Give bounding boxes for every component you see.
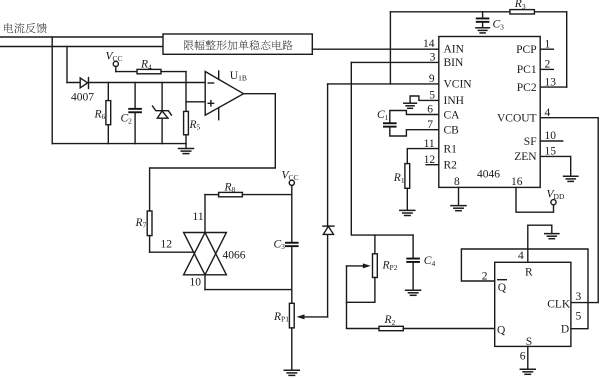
ground pin8 bbox=[451, 206, 466, 211]
svg-text:R3: R3 bbox=[514, 0, 526, 11]
wire pin10 SF stub bbox=[540, 140, 563, 142]
svg-text:Q: Q bbox=[497, 324, 506, 336]
wire VCIN horizontal bbox=[328, 83, 439, 85]
label 电流反馈 (current feedback) bbox=[4, 23, 47, 33]
wire zener top bbox=[161, 83, 163, 111]
capacitor C2 bbox=[128, 108, 142, 113]
svg-text:S: S bbox=[526, 336, 532, 348]
svg-text:3: 3 bbox=[576, 291, 582, 303]
capacitor C7 bbox=[285, 242, 299, 247]
svg-text:R1: R1 bbox=[444, 143, 458, 155]
wire C3 to ground bbox=[482, 23, 484, 27]
wire pin2 stub bbox=[540, 68, 553, 70]
svg-text:4046: 4046 bbox=[477, 169, 500, 181]
op-amp U1B bbox=[205, 71, 243, 120]
wire C3 stem bbox=[482, 12, 484, 18]
wire 4066 pin10 to RP1 node bbox=[205, 275, 292, 290]
wire INH pin5 to ground bbox=[410, 96, 439, 103]
svg-text:10: 10 bbox=[190, 277, 202, 289]
wire pin1 stub bbox=[540, 48, 553, 50]
svg-text:12: 12 bbox=[161, 239, 173, 251]
ground ZEN bbox=[564, 176, 578, 181]
wire vertical from line2 bbox=[66, 47, 68, 83]
svg-text:AIN: AIN bbox=[444, 44, 465, 56]
wire VCO rail down to VCIN bbox=[389, 12, 391, 84]
svg-text:SF: SF bbox=[524, 136, 537, 148]
power Vcc (left) bbox=[106, 51, 123, 67]
wire R2 to Q bbox=[403, 328, 494, 330]
ground G1 bbox=[179, 149, 194, 154]
capacitor C4 bbox=[406, 258, 420, 263]
svg-text:6: 6 bbox=[520, 350, 526, 362]
resistor R8 bbox=[219, 192, 243, 196]
analog switch U3 4066 (two gates) bbox=[184, 233, 227, 275]
wire vertical from line1 bbox=[51, 37, 53, 144]
svg-text:ZEN: ZEN bbox=[514, 151, 537, 163]
wire R7 to 4066 pin12 bbox=[150, 236, 195, 253]
svg-text:11: 11 bbox=[193, 211, 204, 223]
wire C4 bottom bbox=[412, 263, 414, 289]
wire 4066 pin11 bbox=[204, 195, 206, 233]
wire R6 top bbox=[107, 83, 109, 101]
ground S pin bbox=[520, 369, 535, 374]
wiper arrow RP2 bbox=[347, 263, 371, 268]
svg-text:CLK: CLK bbox=[547, 298, 571, 310]
wire pin8 stem bbox=[458, 187, 460, 204]
wire pin16 to VDD bbox=[516, 187, 554, 212]
svg-text:3: 3 bbox=[430, 52, 436, 64]
resistor R4 bbox=[137, 69, 161, 73]
power VDD bbox=[547, 189, 565, 205]
svg-text:PC1: PC1 bbox=[517, 64, 537, 76]
resistor R5 bbox=[184, 111, 189, 134]
wire zener bottom bbox=[161, 118, 163, 143]
flip-flop U4 body bbox=[495, 262, 571, 346]
svg-text:4066: 4066 bbox=[223, 250, 246, 262]
wire S pin stem bbox=[527, 346, 529, 368]
wire R5 bottom bbox=[185, 135, 187, 144]
wire CB pin7 to C1 bbox=[390, 128, 439, 136]
svg-text:VCOUT: VCOUT bbox=[497, 113, 537, 125]
zener diode DZ bbox=[153, 106, 172, 118]
ground under C4 bbox=[406, 290, 421, 295]
svg-text:2: 2 bbox=[482, 270, 488, 282]
wire R8 right to Vcc rail bbox=[242, 194, 291, 196]
svg-text:8: 8 bbox=[454, 176, 460, 188]
svg-text:PCP: PCP bbox=[516, 44, 536, 56]
potentiometer RP2 body bbox=[373, 254, 378, 278]
svg-text:14: 14 bbox=[423, 38, 435, 50]
IC U2 4046 body bbox=[439, 37, 540, 188]
wire pin13 up to R3 bbox=[566, 12, 568, 87]
wire R1 to ground bbox=[406, 188, 408, 209]
wire diode input row bbox=[67, 82, 205, 84]
svg-text:BIN: BIN bbox=[444, 57, 465, 69]
wire RP1 bottom bbox=[291, 328, 293, 369]
svg-text:4: 4 bbox=[518, 250, 524, 262]
wire C2 top bbox=[134, 83, 136, 108]
resistor R6 bbox=[106, 101, 111, 125]
potentiometer RP1 body bbox=[289, 303, 294, 328]
diode D1 4007 bbox=[80, 78, 88, 89]
svg-text:9: 9 bbox=[429, 73, 435, 85]
wire feedback line 2 bbox=[0, 46, 163, 48]
svg-text:PC2: PC2 bbox=[517, 82, 537, 94]
wire R pin4 up bbox=[528, 225, 552, 262]
wire pin4 VCOUT to CLK bbox=[540, 118, 598, 303]
ground INH bbox=[404, 103, 417, 108]
label 限幅整形加单稳态电路 bbox=[184, 40, 293, 50]
wire R4 to plus node bbox=[161, 72, 186, 112]
wire plus input bbox=[186, 101, 205, 103]
ground R pin bbox=[545, 234, 559, 239]
svg-text:D: D bbox=[561, 324, 569, 336]
svg-text:Q: Q bbox=[498, 282, 507, 294]
wire box output to pin14 bbox=[312, 48, 439, 50]
power Vcc (middle) bbox=[282, 170, 299, 186]
wire bottom rail left section bbox=[52, 143, 186, 145]
wiper arrow RP1 bbox=[297, 314, 328, 319]
wire C4 top bbox=[412, 235, 414, 258]
svg-text:VCIN: VCIN bbox=[444, 79, 473, 91]
wire BIN net down to RP2/C4 rail bbox=[351, 62, 413, 235]
wire BIN horizontal bbox=[351, 61, 439, 63]
wire VCO top rail bbox=[390, 11, 566, 13]
ground under R1 bbox=[400, 210, 415, 215]
svg-text:CB: CB bbox=[444, 125, 460, 137]
capacitor C3 bbox=[476, 18, 490, 23]
wire C2 bottom bbox=[134, 113, 136, 143]
svg-text:R: R bbox=[525, 267, 533, 279]
svg-text:16: 16 bbox=[511, 176, 523, 188]
svg-text:INH: INH bbox=[444, 95, 464, 107]
resistor R2ext bbox=[379, 326, 403, 330]
wire pin15 ZEN to ground bbox=[540, 156, 571, 175]
svg-text:R2: R2 bbox=[444, 160, 458, 172]
wire R8 left to pin11 bbox=[205, 194, 219, 196]
wire RP2 top bbox=[374, 235, 376, 254]
diode D2 (vertical) bbox=[323, 226, 334, 234]
capacitor C1 bbox=[383, 122, 397, 127]
resistor R3 bbox=[510, 10, 535, 14]
wire C7 to RP1 bbox=[291, 247, 293, 303]
wire ground stem G1 bbox=[185, 144, 187, 149]
resistor R1int bbox=[405, 164, 410, 189]
wire op-amp output to R7 bbox=[150, 94, 276, 211]
svg-text:CA: CA bbox=[444, 109, 461, 121]
pin name Qbar bbox=[498, 280, 507, 294]
wire CA pin6 to C1 bbox=[390, 111, 439, 123]
wire Qbar loop to D bbox=[461, 249, 588, 329]
wire RP2 bottom loop bbox=[347, 278, 375, 303]
wire pin13 bbox=[540, 86, 567, 88]
svg-text:5: 5 bbox=[576, 311, 582, 323]
wire RP2 wiper down to R2 row bbox=[347, 266, 380, 329]
ground under C3 bbox=[476, 28, 490, 33]
wire VCIN node down to diode D2 and RP1 wiper bbox=[327, 84, 329, 317]
wire Vcc to R4 bbox=[116, 67, 137, 72]
svg-text:4007: 4007 bbox=[71, 91, 94, 103]
wire Vcc rail down to C7 bbox=[291, 185, 293, 241]
resistor R7 bbox=[147, 211, 152, 236]
wire feedback line 1 bbox=[0, 36, 163, 38]
block 限幅整形加单稳态电路 (limiter/monostable box) bbox=[163, 34, 312, 54]
wire R6 bottom bbox=[107, 125, 109, 144]
ground under RP1 bbox=[284, 370, 299, 375]
wire pin11 to R1 bbox=[407, 149, 439, 164]
wire pin12 stub bbox=[426, 164, 439, 166]
